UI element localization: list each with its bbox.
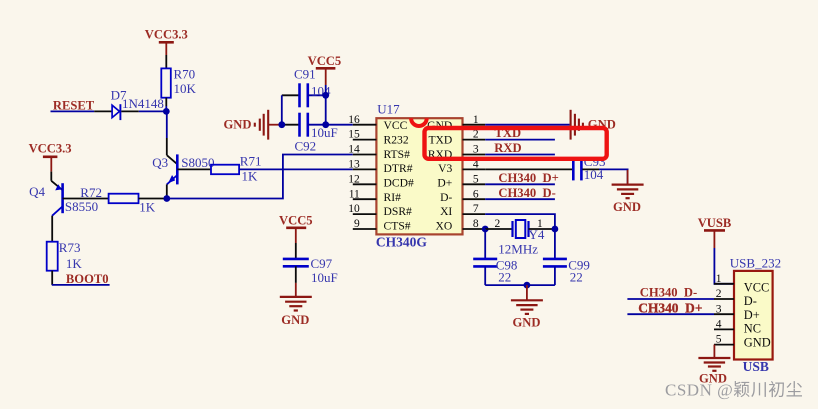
svg-text:1: 1 — [473, 114, 479, 126]
wire R70 to node A — [165, 98, 167, 106]
svg-text:VCC5: VCC5 — [279, 213, 313, 227]
diode D7 1N4148 — [94, 88, 164, 121]
crystal Y4 12MHz — [495, 218, 555, 256]
svg-text:RI#: RI# — [384, 191, 402, 204]
svg-text:1K: 1K — [139, 199, 156, 214]
svg-text:Y4: Y4 — [529, 227, 545, 242]
svg-text:D-: D- — [440, 191, 452, 204]
resistor R70 10K — [161, 66, 196, 97]
svg-text:VCC5: VCC5 — [308, 54, 342, 68]
capacitor C98 22 — [473, 229, 517, 285]
svg-text:CSDN @颖川初尘: CSDN @颖川初尘 — [665, 381, 803, 400]
svg-text:DTR#: DTR# — [384, 162, 413, 175]
svg-text:13: 13 — [348, 159, 360, 171]
USB_232 pin numbers 1-5 — [716, 273, 722, 346]
svg-text:CH340 D-: CH340 D- — [498, 186, 555, 200]
resistor R72 1K — [80, 185, 156, 214]
ground GND (USB) — [698, 358, 730, 385]
svg-text:CH340 D+: CH340 D+ — [498, 171, 558, 185]
svg-text:GND: GND — [513, 315, 541, 329]
svg-text:22: 22 — [498, 270, 511, 285]
svg-text:C97: C97 — [311, 256, 333, 271]
svg-text:Q3: Q3 — [152, 155, 168, 170]
svg-text:S8550: S8550 — [65, 199, 98, 214]
svg-text:22: 22 — [570, 270, 583, 285]
node XO (pin 8 / C98) — [482, 226, 489, 233]
svg-text:TXD: TXD — [428, 134, 452, 147]
svg-text:NC: NC — [744, 322, 761, 336]
svg-text:VUSB: VUSB — [698, 216, 732, 230]
svg-text:C91: C91 — [294, 67, 316, 82]
capacitor C93 104 — [573, 154, 605, 182]
svg-text:10uF: 10uF — [311, 270, 338, 285]
capacitor C92 10uF — [282, 95, 338, 153]
svg-text:R72: R72 — [80, 185, 102, 200]
node C92 right — [322, 121, 329, 128]
svg-text:C92: C92 — [295, 138, 317, 153]
svg-text:U17: U17 — [377, 101, 400, 116]
svg-text:XI: XI — [440, 205, 452, 218]
wire diode to node A — [139, 110, 167, 112]
svg-text:CTS#: CTS# — [384, 220, 411, 233]
svg-text:4: 4 — [716, 319, 722, 331]
svg-text:1N4148: 1N4148 — [122, 96, 164, 111]
wire pin 4 V3 to C93 — [485, 168, 572, 170]
node C92 left — [278, 121, 285, 128]
svg-text:R71: R71 — [240, 154, 262, 169]
wire pin 5 to ground — [713, 345, 715, 357]
svg-text:DSR#: DSR# — [384, 205, 413, 218]
transistor Q4 S8550 — [29, 172, 109, 242]
svg-text:8: 8 — [473, 218, 479, 230]
svg-text:12MHz: 12MHz — [498, 241, 538, 256]
svg-text:2: 2 — [495, 218, 501, 230]
USB_232 pin stubs 1-5 — [714, 284, 734, 345]
wire R71 to DTR# pin 13 — [239, 168, 353, 170]
svg-text:1K: 1K — [242, 168, 259, 183]
wire CH340 D- to pin 2 — [627, 298, 714, 300]
svg-text:RXD: RXD — [494, 141, 521, 155]
svg-text:15: 15 — [348, 129, 360, 141]
U17 pin names left (VCC R232 RTS# DTR# DCD# RI# DSR# CTS#) — [384, 119, 414, 232]
svg-text:GND: GND — [427, 119, 452, 132]
svg-text:6: 6 — [473, 188, 479, 200]
svg-text:VCC: VCC — [384, 119, 408, 132]
U17 pin names right (GND TXD RXD V3 D+ D- XI XO) — [427, 119, 452, 232]
wire TXD — [485, 139, 555, 141]
svg-text:VCC3.3: VCC3.3 — [29, 142, 72, 156]
svg-text:1K: 1K — [66, 256, 83, 271]
wire BOOT0 net — [52, 284, 110, 286]
wire CH340 D- — [485, 198, 555, 200]
wire VCC5 riser to caps — [325, 85, 327, 125]
svg-text:DCD#: DCD# — [384, 177, 414, 190]
svg-text:R70: R70 — [174, 66, 196, 81]
wire XO to crystal — [485, 228, 512, 230]
svg-text:GND: GND — [224, 118, 252, 132]
wire VCC node to pin 16 — [326, 124, 353, 126]
annotation red highlight box (TXD/RXD) — [425, 128, 607, 159]
wire pin 7 XI to crystal — [485, 214, 555, 229]
node B (Q3 emitter / R72 junction) — [163, 195, 170, 202]
svg-text:12: 12 — [348, 173, 360, 185]
ground GND (crystal) — [511, 285, 543, 329]
svg-text:CH340 D-: CH340 D- — [640, 285, 697, 299]
resistor R73 1K — [47, 240, 83, 271]
power flag VCC5 (C91/C92) — [308, 54, 342, 85]
svg-text:V3: V3 — [438, 162, 452, 175]
wire crystal ground rail — [485, 284, 555, 286]
svg-text:9: 9 — [354, 218, 360, 230]
svg-text:VCC: VCC — [744, 280, 769, 294]
svg-text:D+: D+ — [437, 177, 452, 190]
svg-text:USB: USB — [743, 359, 769, 374]
U17 pin numbers 1-8 — [473, 114, 479, 230]
svg-text:Q4: Q4 — [29, 184, 45, 199]
svg-text:10K: 10K — [174, 81, 197, 96]
transistor Q3 S8050 — [152, 154, 214, 198]
wire CH340 D+ to pin 3 — [627, 313, 714, 315]
wire VUSB to pin 1 — [714, 248, 734, 284]
ground GND (C93) — [612, 170, 644, 214]
svg-text:GND: GND — [613, 200, 641, 214]
connector USB_232 body — [730, 255, 781, 374]
wire R73 to BOOT0 — [51, 271, 53, 285]
IC U17 CH340G body — [376, 101, 463, 249]
svg-text:3: 3 — [716, 303, 722, 315]
USB_232 pin names (VCC D- D+ NC GND) — [744, 280, 771, 349]
svg-text:1: 1 — [716, 273, 722, 285]
svg-text:2: 2 — [716, 288, 722, 300]
wire CH340 D+ — [485, 183, 555, 185]
wire R72 to node B — [139, 198, 167, 200]
svg-text:11: 11 — [349, 188, 360, 200]
svg-text:7: 7 — [473, 203, 479, 215]
wire VCC3.3 to R70 — [165, 55, 167, 68]
svg-text:10: 10 — [348, 203, 360, 215]
wire pin 1 GND — [485, 124, 569, 126]
wire RXD — [485, 154, 555, 156]
capacitor C97 10uF — [283, 243, 338, 285]
power flag VCC3.3 (R70 pull-up) — [145, 28, 188, 56]
U17 pin stubs 16-9 (left) — [353, 125, 377, 229]
svg-text:XO: XO — [436, 220, 453, 233]
node C91 right — [322, 92, 329, 99]
power flag VCC5 (C97) — [279, 213, 313, 243]
svg-text:R232: R232 — [384, 134, 409, 147]
capacitor C91 104 — [282, 67, 331, 108]
U17 pin numbers 16-9 — [348, 114, 360, 230]
svg-text:VCC3.3: VCC3.3 — [145, 28, 188, 42]
power bar GND (left of C91/C92) — [224, 110, 282, 140]
svg-text:16: 16 — [348, 114, 360, 126]
node ground rail — [524, 282, 531, 289]
svg-text:R73: R73 — [59, 240, 81, 255]
svg-text:RESET: RESET — [53, 98, 95, 112]
svg-text:5: 5 — [473, 173, 479, 185]
power bar GND (pin 1) — [571, 110, 616, 140]
svg-text:D+: D+ — [744, 308, 760, 322]
svg-text:GND: GND — [281, 313, 309, 327]
wire node B to RTS# riser — [167, 155, 353, 199]
svg-text:2: 2 — [473, 129, 479, 141]
annotation red arc (pin1 mark) — [411, 118, 427, 126]
svg-text:S8050: S8050 — [181, 155, 214, 170]
U17 pin stubs 1-8 (right) — [463, 125, 486, 229]
wire RESET net — [51, 110, 95, 112]
svg-text:D-: D- — [744, 294, 757, 308]
wire node A down to Q3 collector — [166, 111, 168, 155]
svg-text:3: 3 — [473, 144, 479, 156]
node XI (crystal right) — [552, 226, 559, 233]
svg-text:USB_232: USB_232 — [730, 255, 781, 270]
ground GND (C97) — [280, 283, 312, 327]
power flag VUSB — [698, 216, 732, 248]
svg-text:5: 5 — [716, 334, 722, 346]
node A (junction below R70) — [163, 108, 170, 115]
wire C93 to GND — [582, 169, 627, 183]
svg-text:CH340G: CH340G — [376, 235, 428, 250]
capacitor C99 22 — [543, 229, 590, 285]
svg-text:RTS#: RTS# — [384, 148, 411, 161]
power flag VCC3.3 (Q4 emitter) — [29, 142, 72, 172]
svg-text:GND: GND — [744, 335, 771, 349]
resistor R71 1K — [211, 154, 261, 184]
svg-text:CH340 D+: CH340 D+ — [638, 300, 702, 315]
svg-text:14: 14 — [348, 144, 360, 156]
